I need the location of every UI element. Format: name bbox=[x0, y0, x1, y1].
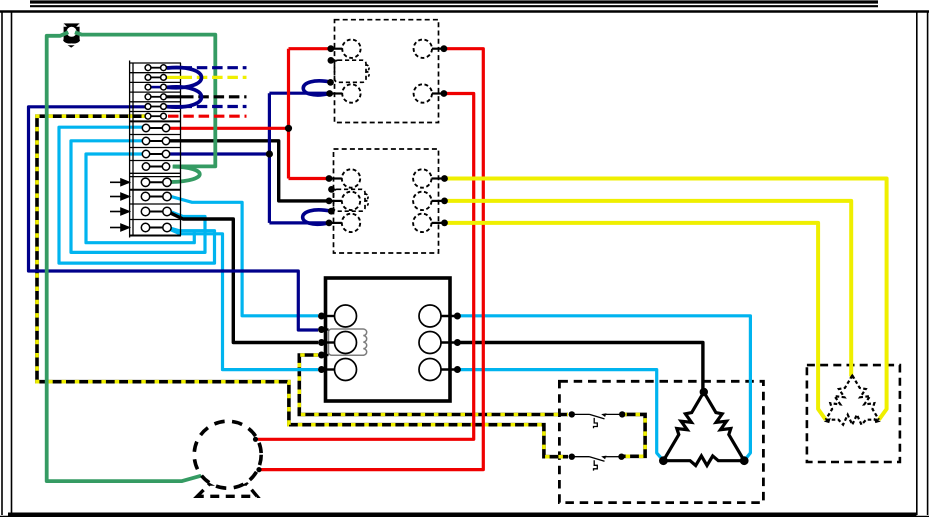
wire yellow contactor K2 right pin1 to start delta right bbox=[444, 179, 886, 420]
wire cyan strip row14 to terminal-box pin5 bbox=[168, 229, 318, 370]
resistor delta (start resistors, solid) bbox=[663, 392, 744, 466]
wire green loop strip row10 to row11 bbox=[172, 167, 200, 182]
coil symbol inside terminal box bbox=[329, 329, 367, 355]
wire yellow-black safety loop (strip row6 to left bus, bottom bus) bbox=[37, 116, 568, 457]
wire cyan terminal-box right pin3 to resistor delta bottom-left bbox=[460, 370, 663, 461]
wire yellow-black switch output link S1-S2 bbox=[622, 414, 646, 456]
wire black terminal-box right pin2 to resistor delta apex bbox=[460, 343, 703, 393]
wire black stub row4 bbox=[166, 95, 247, 98]
arrows pointing to strip rows 11-14 bbox=[110, 179, 129, 231]
wire cyan jumper strip row9 (left loom inner) bbox=[86, 154, 194, 243]
wire red stub row6 bbox=[168, 115, 247, 118]
resistor delta (dashed, inside bank) bbox=[826, 376, 879, 425]
start delta resistor bank box (dashed) bbox=[807, 365, 900, 462]
wire green earth from clamp left branch to motor frame bbox=[47, 32, 203, 481]
wire yellow-black from terminal-box pin4 to flow-switch S1 bbox=[299, 355, 568, 415]
flow switch S1 bbox=[572, 413, 622, 428]
wire navy arc row1-row3 bbox=[167, 68, 202, 88]
wire red contactor K1 right bottom to motor (inner) bbox=[256, 94, 474, 440]
terminal strip TB1 frame bbox=[130, 61, 181, 238]
wire black strip row8 to contactor K2 pin2 bbox=[168, 141, 329, 201]
wire green earth from clamp right branch to strip row10 bbox=[75, 32, 215, 166]
wire navy stub row5 bbox=[166, 105, 247, 108]
wire red strip row7 to contactors K1/K2 line side bbox=[168, 49, 329, 179]
flow switch S2 bbox=[572, 456, 622, 471]
contactor K1 (top, dashed) bbox=[330, 20, 444, 123]
wire yellow contactor K2 right pin3 to start delta left bbox=[444, 223, 825, 420]
wire navy stub row1 bbox=[166, 66, 247, 69]
corner marks of dashed delta bbox=[824, 374, 881, 424]
earth clamp symbol bbox=[63, 23, 80, 47]
wire cyan terminal-box right pin1 to resistor delta bottom-right bbox=[460, 316, 750, 461]
wire red contactor K1 right top to motor (outer) bbox=[259, 49, 483, 470]
wire cyan jumper strip row7 to row14 (left loom outer) bbox=[59, 127, 215, 263]
wire navy strip row9 to contactor coils K1/K2 bbox=[168, 93, 328, 223]
flow switch box (dashed) bbox=[559, 381, 763, 502]
wire navy coil loop K2 bbox=[303, 210, 332, 224]
wire navy coil loop K1 bbox=[303, 81, 332, 95]
motor M1 (dashed circle) bbox=[194, 421, 261, 496]
wire yellow stub row2 bbox=[166, 76, 247, 79]
wire yellow contactor K2 right pin2 to start delta apex bbox=[444, 201, 851, 377]
terminal strip TB1 contact circles and links bbox=[141, 65, 171, 232]
coil A1-A2 of contactor K1 (dashed box) bbox=[335, 60, 370, 82]
wire black strip row13 to terminal-box pin3 bbox=[170, 213, 318, 343]
contactor K2 (middle, dashed) bbox=[329, 149, 445, 253]
wire cyan strip row12 to terminal-box pin1 bbox=[171, 197, 318, 316]
wire cyan jumper strip row8 to row13 (left loom middle) bbox=[71, 141, 205, 253]
wire navy strip row5 feed from left bbox=[29, 107, 319, 330]
coil A1-A2 of contactor K2 (dashed box) bbox=[334, 189, 369, 211]
motor terminal box (solid) bbox=[322, 278, 458, 401]
wire navy arc row3-row5 bbox=[167, 87, 202, 107]
